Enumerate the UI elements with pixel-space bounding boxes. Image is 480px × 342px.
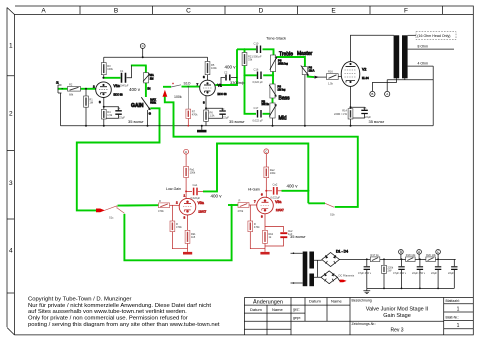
resistor R6 1,5k (V1 cathode) [204, 110, 216, 121]
node C psu [436, 250, 441, 255]
svg-text:400 v: 400 v [129, 87, 141, 92]
svg-text:R: R [239, 199, 241, 203]
wire OT primary return to node B [372, 78, 396, 91]
svg-text:100k: 100k [270, 171, 276, 175]
svg-text:C3: C3 [221, 107, 225, 111]
wire Rg2 to grid [249, 204, 257, 206]
resistor Rk1 1k5 [185, 230, 196, 243]
wire R5 to V1 plate [207, 57, 209, 80]
svg-text:IN: IN [147, 86, 150, 90]
capacitor C5 22µF [361, 106, 384, 124]
junction dots green [231, 48, 310, 206]
svg-text:Copyright by Tube-Town / D. Mu: Copyright by Tube-Town / D. Munzinger [28, 297, 131, 303]
wire V1a cathode [103, 98, 105, 126]
output transformer T2 [394, 35, 408, 78]
capacitor C20 [358, 259, 372, 288]
wire J1 sleeve to rail [60, 93, 62, 126]
capacitor Ca2 [271, 182, 282, 199]
svg-text:C4: C4 [117, 107, 121, 111]
potentiometer GAIN [131, 97, 157, 115]
svg-text:S1b: S1b [330, 213, 335, 217]
svg-text:4 Ohm: 4 Ohm [418, 62, 429, 66]
tube V3a low-gain [176, 194, 207, 220]
tube V3a hi-gain [254, 193, 284, 219]
copyright text block [28, 297, 220, 328]
svg-text:8 Ohm: 8 Ohm [418, 45, 429, 49]
wires to hi-gain ground [250, 232, 265, 252]
resistor R7 470k (V1 grid leak, red) [186, 86, 198, 127]
title block outline [244, 298, 473, 335]
wire GAIN wiper down-left-down to S1c (big left U) [77, 108, 160, 210]
svg-text:C: C [186, 8, 191, 15]
svg-text:Master: Master [297, 51, 313, 57]
wire V1 plate to tone stack [215, 49, 237, 85]
wire node C to Ra2 [265, 154, 267, 167]
power transformer T1 [303, 252, 314, 287]
svg-text:C17: C17 [254, 106, 259, 110]
svg-text:250k log: 250k log [278, 61, 288, 65]
resistor R17 [370, 253, 380, 262]
svg-text:Rev 3: Rev 3 [390, 327, 403, 333]
svg-text:Blatt-Nr.:: Blatt-Nr.: [446, 315, 460, 319]
svg-text:47µF 450 v: 47µF 450 v [393, 271, 407, 275]
svg-text:35 вольт: 35 вольт [369, 119, 385, 124]
potentiometer Master [297, 51, 315, 75]
svg-text:1: 1 [457, 323, 460, 329]
svg-text:400 v: 400 v [211, 193, 223, 198]
svg-text:C16: C16 [254, 68, 259, 72]
wire 4 ohm tap [408, 65, 434, 67]
wire grid leak branch [171, 205, 173, 221]
svg-text:C2: C2 [224, 71, 228, 75]
resistor R14 220R/1W [334, 109, 353, 119]
svg-text:V2: V2 [362, 68, 366, 72]
wire C5 taps [351, 107, 365, 118]
B+ top rail [104, 56, 208, 58]
svg-text:A: A [386, 92, 388, 96]
svg-text:C5: C5 [363, 106, 367, 110]
ground low-gain (red bar) [183, 252, 192, 255]
svg-text:220R / 1 W: 220R / 1 W [334, 112, 348, 116]
red arrow marker at S1O [163, 90, 168, 97]
svg-text:500 pF: 500 pF [254, 55, 262, 59]
resistor R2 68k [68, 83, 81, 97]
red arrow into S1c [96, 209, 105, 213]
resistor Ra2 100k [264, 167, 276, 178]
wire V3a cathode [187, 215, 189, 230]
svg-text:ECC 83: ECC 83 [114, 93, 124, 97]
switch S1b [325, 203, 335, 216]
wire hi-gain output Ca2 to S1b leg [282, 190, 309, 192]
resistor Rg2 470k [238, 199, 250, 213]
svg-text:D: D [259, 8, 264, 15]
svg-text:S1c: S1c [109, 216, 114, 220]
tube V2 EL84 [341, 62, 369, 87]
ground V1 cathode [201, 126, 203, 130]
svg-text:Änderungen: Änderungen [253, 298, 283, 305]
svg-text:12AX7: 12AX7 [276, 208, 284, 212]
svg-text:500k: 500k [150, 100, 156, 104]
svg-text:Ca1: Ca1 [193, 183, 198, 187]
svg-text:25k lin: 25k lin [262, 102, 270, 106]
svg-text:1M A: 1M A [309, 68, 315, 72]
B+ distribution wire [339, 259, 455, 261]
label (16 Ohm Head Only) [416, 32, 456, 40]
wire Ra2 to plate junction [266, 178, 272, 198]
wire green return crossing ground rail [173, 123, 175, 130]
svg-text:B: B [400, 250, 402, 254]
wire S1b left contact [308, 202, 325, 204]
svg-text:D1 - D4: D1 - D4 [336, 250, 348, 254]
svg-text:4: 4 [9, 247, 13, 254]
switch S1O [171, 82, 191, 100]
wire Ra1 to plate junction [186, 178, 192, 199]
potentiometer bright (MAX 500k) [143, 73, 154, 91]
svg-text:Datum: Datum [250, 307, 262, 312]
svg-text:100k: 100k [107, 67, 113, 71]
svg-text:F: F [404, 8, 408, 15]
node C hi-gain [264, 149, 269, 154]
svg-text:V3a: V3a [198, 201, 204, 205]
svg-text:470k: 470k [176, 225, 182, 229]
svg-text:12AX7: 12AX7 [198, 209, 206, 213]
svg-text:auf Sites ausserhalb von www.t: auf Sites ausserhalb von www.tube-town.n… [28, 309, 187, 315]
secondary leads [314, 260, 322, 277]
svg-text:35 вольт: 35 вольт [290, 234, 306, 239]
svg-text:ECC 83: ECC 83 [218, 92, 228, 96]
svg-text:100k: 100k [174, 95, 182, 99]
wire treble wiper to master pot [277, 57, 305, 67]
wire C1 out black jog [127, 65, 132, 77]
resistor R18 [406, 253, 417, 262]
resistor R3 100k [101, 63, 113, 75]
wire R3 to V1a plate [103, 57, 105, 78]
svg-text:400 v: 400 v [287, 183, 299, 188]
wire treble bottom to bass top [272, 72, 274, 85]
resistor R20 [426, 253, 437, 262]
psu junction dots [366, 258, 439, 289]
svg-text:R18 10k: R18 10k [406, 253, 416, 257]
wires to low-gain ground [172, 232, 187, 252]
svg-text:Zeichnungs-Nr.:: Zeichnungs-Nr.: [352, 322, 377, 326]
capacitor C2 3300pf [224, 71, 245, 85]
resistor R1 1M [84, 96, 94, 107]
wire 8 ohm tap [408, 48, 454, 50]
svg-text:1M: 1M [150, 76, 154, 80]
svg-text:Gain Stage: Gain Stage [383, 313, 411, 319]
svg-text:1: 1 [457, 307, 460, 313]
psu ground rail [367, 287, 455, 289]
junction dots black [85, 56, 352, 126]
svg-text:Hi-Gain: Hi-Gain [248, 188, 260, 192]
svg-text:47µF 450 v: 47µF 450 v [358, 271, 372, 275]
svg-text:2W: 2W [388, 269, 392, 273]
wire OT secondary common [387, 78, 433, 91]
svg-text:100k: 100k [190, 171, 196, 175]
potentiometer Mid [262, 99, 287, 121]
connector J1 [56, 81, 63, 94]
svg-text:gepr:: gepr: [293, 316, 301, 320]
svg-text:22µF: 22µF [431, 271, 437, 275]
svg-text:22µF: 22µF [448, 271, 454, 275]
resistor Ra1 100k [184, 166, 196, 177]
node A [385, 91, 390, 96]
svg-text:C10: C10 [254, 42, 259, 46]
capacitor C16 0,022µF [253, 68, 264, 85]
svg-text:22µF 450 v: 22µF 450 v [412, 271, 426, 275]
svg-text:R17 1k: R17 1k [371, 253, 380, 257]
wire master pot bottom to rail [304, 75, 306, 126]
svg-text:0,0047µF: 0,0047µF [118, 84, 129, 88]
node A psu [417, 250, 422, 255]
svg-text:(16 Ohm Head Only): (16 Ohm Head Only) [417, 34, 450, 38]
wire V3a hi cathode [265, 214, 284, 232]
svg-text:Ca2: Ca2 [273, 182, 278, 186]
svg-text:V3a: V3a [275, 200, 281, 204]
node C stub [142, 48, 144, 57]
title block texts [250, 298, 460, 333]
svg-text:Bezeichnung: Bezeichnung [352, 299, 372, 303]
svg-text:E: E [331, 8, 336, 15]
svg-text:Blattzahl:: Blattzahl: [446, 299, 460, 303]
wire S1O left contact [163, 86, 171, 88]
wire V2 cathode [350, 86, 352, 125]
potentiometer Treble [270, 52, 293, 72]
capacitor Ca1 [191, 183, 204, 200]
resistor R16 [327, 70, 339, 86]
svg-text:R16: R16 [328, 70, 333, 74]
wire low-gain output Ca1 up and right and down to S1b [203, 144, 308, 204]
svg-text:gez:: gez: [293, 308, 300, 312]
svg-text:A: A [41, 8, 46, 15]
resistor R19 bleeder [382, 259, 394, 288]
wire C1 out up to bright pot [131, 65, 147, 72]
wire R21 slope leg [245, 49, 257, 114]
svg-text:R: R [159, 199, 161, 203]
svg-text:1M: 1M [89, 101, 93, 105]
svg-text:Tone-Stack: Tone-Stack [266, 35, 286, 40]
svg-text:Valve Junior Mod Stage II: Valve Junior Mod Stage II [366, 307, 429, 313]
node B psu [399, 250, 404, 255]
wire C17 to mid pot [263, 113, 271, 115]
resistor R4 1,5k [101, 109, 113, 119]
svg-text:R2: R2 [69, 83, 73, 87]
wire node C to Ra1 [185, 154, 187, 166]
svg-text:Mid: Mid [279, 116, 287, 122]
capacitor C22 [412, 259, 426, 288]
svg-text:Low-Gain: Low-Gain [166, 187, 181, 191]
wire Rg1 to grid [170, 204, 180, 206]
resistor 470k grid leak low [170, 221, 182, 232]
capacitor C17 0,022µF [253, 106, 264, 123]
svg-text:1,5k: 1,5k [328, 82, 334, 86]
bridge rectifier DC filaments [321, 271, 337, 284]
wire S1O to V1 grid [182, 86, 200, 88]
wire C16 branch [245, 74, 274, 76]
mains leads [291, 253, 303, 283]
capacitor C23 [431, 259, 441, 288]
svg-text:EL 84: EL 84 [362, 76, 369, 80]
svg-text:DC Filaments: DC Filaments [339, 274, 355, 278]
psu ground symbol [363, 288, 370, 293]
switch S1c [105, 206, 125, 220]
wire S1b common big return loop to S1O [165, 97, 358, 207]
wire C10 to treble pot [263, 49, 274, 55]
svg-text:470k: 470k [238, 209, 244, 213]
svg-text:0,022 µF: 0,022 µF [253, 119, 264, 123]
svg-text:1,5k: 1,5k [107, 113, 113, 117]
resistor R21 33k [242, 53, 253, 66]
node C [140, 44, 145, 49]
tube V1a ECC83 [93, 82, 123, 104]
svg-text:C1: C1 [120, 69, 124, 73]
capacitor C3 22µF [219, 107, 245, 124]
capacitor Ck2 [265, 229, 306, 246]
capacitor C1 [118, 69, 129, 88]
wire input jack to R2 [58, 88, 68, 90]
wire C3 taps [206, 108, 223, 118]
resistor Rg1 470k [158, 199, 170, 213]
svg-text:22µF: 22µF [119, 116, 125, 120]
svg-text:35 вольт: 35 вольт [128, 119, 144, 124]
wire grid leak branch hi [249, 205, 251, 221]
wire S1c lower throw to hi-gain grid (lower U) [124, 205, 231, 260]
wire R1 grid leak [85, 89, 87, 126]
svg-text:2: 2 [9, 110, 13, 117]
svg-text:Nur für private / nicht kommer: Nur für private / nicht kommerzielle Anw… [28, 303, 211, 309]
wire V1a plate to C1 [103, 77, 120, 79]
wire R2 to V1a grid [81, 88, 96, 90]
node B [370, 91, 375, 96]
wire GAIN pot bottom to rail [147, 110, 149, 126]
svg-text:Treble: Treble [279, 52, 293, 58]
svg-text:Datum: Datum [309, 299, 321, 304]
svg-text:S1O: S1O [184, 82, 191, 86]
svg-text:1: 1 [9, 42, 13, 49]
node C low-gain [184, 149, 189, 154]
svg-text:Only for private / non commerc: Only for private / non commercial use. P… [28, 316, 188, 322]
svg-text:400 v: 400 v [225, 64, 237, 69]
resistor 470k grid leak hi [248, 221, 260, 232]
svg-text:posting / serving this diagram: posting / serving this diagram from any … [28, 322, 220, 328]
svg-text:V1: V1 [218, 84, 222, 88]
wire tone stack top to C10 [237, 48, 256, 50]
svg-text:Name: Name [331, 299, 342, 304]
tube V1 ECC83 [197, 75, 228, 105]
svg-text:0,022µF: 0,022µF [271, 195, 281, 199]
svg-text:B: B [114, 8, 118, 15]
svg-text:470k: 470k [192, 113, 198, 117]
bridge rectifier D1-D4 [322, 250, 348, 267]
svg-text:1,5k: 1,5k [210, 114, 216, 118]
svg-text:3: 3 [9, 180, 13, 187]
svg-text:R20 10k: R20 10k [426, 253, 436, 257]
capacitor C4 22µF [115, 107, 144, 124]
svg-text:GAIN: GAIN [131, 103, 144, 109]
wire bright pot to GAIN pot [145, 83, 147, 97]
red arrow DC filaments [340, 280, 347, 283]
wire 16 ohm tap [408, 34, 416, 36]
frame row numbers [9, 42, 13, 254]
wire C4 taps [104, 107, 119, 119]
svg-text:68k: 68k [69, 92, 74, 96]
wire mid pot bottom to rail [272, 118, 274, 126]
frame column letters [41, 8, 408, 15]
wire C2 coupling stub [221, 78, 237, 86]
svg-text:3300пф: 3300пф [230, 80, 245, 85]
capacitor C24 [448, 259, 458, 288]
frame row dividers [7, 76, 14, 293]
capacitor C21 [393, 259, 407, 288]
svg-text:1M log: 1M log [278, 87, 286, 91]
svg-text:B: B [371, 92, 373, 96]
wire V2 plate to OT [351, 35, 394, 61]
svg-text:Bass: Bass [279, 96, 291, 102]
wire R16 to V2 grid [338, 76, 341, 78]
svg-text:1k5: 1k5 [191, 235, 196, 239]
svg-text:Name: Name [272, 307, 283, 312]
wire bass wiper to mid top [272, 98, 274, 103]
resistor Rk2 [263, 230, 274, 243]
wire S1c to low-gain grid resistor [118, 204, 159, 206]
frame column dividers [80, 6, 443, 14]
ground hi-gain (red bar) [260, 252, 269, 255]
wire speaker return [432, 66, 434, 126]
svg-text:100k: 100k [211, 66, 217, 70]
svg-text:470k: 470k [158, 209, 164, 213]
wire master wiper out [307, 76, 314, 79]
ground rail mid [61, 125, 434, 127]
svg-text:33k: 33k [248, 58, 253, 62]
svg-text:35 вольт: 35 вольт [229, 119, 245, 124]
resistor R5 100k (V1 plate) [205, 62, 236, 75]
potentiometer Bass [269, 84, 290, 102]
svg-text:470k: 470k [254, 225, 260, 229]
capacitor C10 500pF [254, 42, 262, 59]
svg-text:0,022 µF: 0,022 µF [253, 80, 264, 84]
wire master wiper to R16 [314, 76, 327, 78]
wire hi-gain grid stub [228, 204, 238, 206]
wire V1 cathode [205, 96, 207, 126]
